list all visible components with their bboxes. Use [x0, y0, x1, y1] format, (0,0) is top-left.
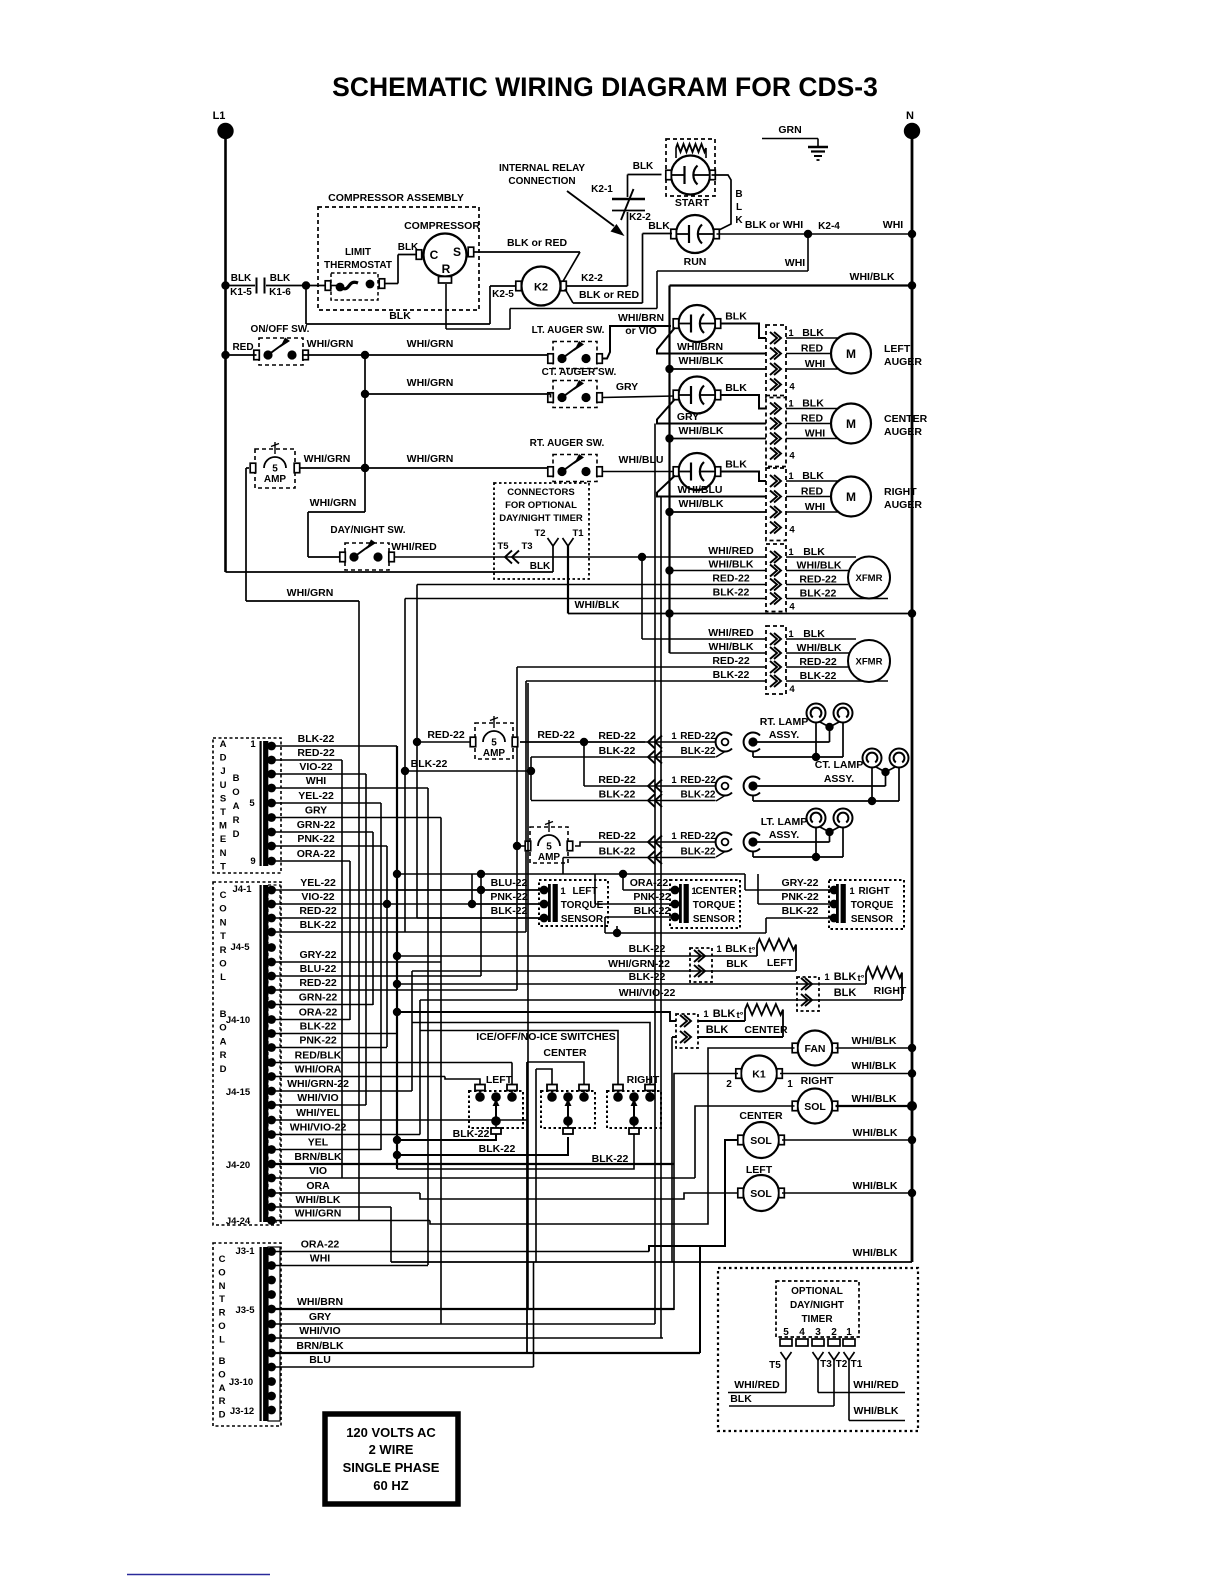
- svg-text:K: K: [735, 215, 743, 226]
- svg-text:LT. AUGER SW.: LT. AUGER SW.: [532, 325, 605, 336]
- svg-text:DAY/NIGHT SW.: DAY/NIGHT SW.: [330, 525, 405, 536]
- svg-text:WHI/BLK: WHI/BLK: [679, 355, 724, 367]
- wire fuse to RT auger sw: [299, 467, 551, 469]
- control board J3 pin 2 WHI: [267, 1261, 276, 1270]
- wire compressor S to K2: [474, 251, 581, 253]
- control board J4 pin 4 BLK-22: [267, 928, 276, 937]
- svg-text:C: C: [219, 1254, 226, 1265]
- svg-text:S: S: [220, 793, 226, 804]
- svg-text:THERMOSTAT: THERMOSTAT: [324, 260, 392, 271]
- svg-text:WHI/BLK: WHI/BLK: [852, 1093, 897, 1105]
- svg-text:4: 4: [799, 1327, 805, 1338]
- svg-text:WHI/RED: WHI/RED: [734, 1379, 780, 1391]
- svg-text:YEL-22: YEL-22: [300, 877, 336, 889]
- svg-text:CT. AUGER SW.: CT. AUGER SW.: [542, 367, 617, 378]
- motor M center auger: [831, 404, 871, 444]
- svg-text:WHI/GRN-22: WHI/GRN-22: [287, 1078, 349, 1090]
- transformer XFMR: [848, 557, 890, 599]
- wire lamp RED-22 row: [584, 785, 716, 787]
- wire RIGHT ice right terminal: [412, 1023, 650, 1085]
- svg-text:BLK: BLK: [725, 943, 747, 955]
- svg-text:PNK-22: PNK-22: [299, 1035, 337, 1047]
- thermistor RIGHT rows: [393, 980, 401, 988]
- control board J4 box: [213, 882, 281, 1225]
- svg-text:BLK-22: BLK-22: [453, 1128, 490, 1140]
- svg-text:R: R: [219, 1396, 226, 1407]
- torque sensor LEFT pin: [540, 900, 549, 909]
- svg-text:GRY-22: GRY-22: [782, 877, 819, 889]
- svg-text:CENTER: CENTER: [739, 1110, 783, 1122]
- wire LEFT ice bottom BLK-22: [397, 1134, 496, 1140]
- svg-text:t°: t°: [749, 945, 756, 956]
- control board J4 pin 19 YEL: [267, 1145, 276, 1154]
- wire CENTER ice bottom BLK-22: [397, 1137, 568, 1155]
- wire J3 row: [272, 1265, 429, 1267]
- wire bus to coil pin3: [670, 368, 767, 370]
- svg-text:K1-6: K1-6: [269, 287, 291, 298]
- svg-text:START: START: [675, 197, 710, 209]
- svg-text:D: D: [220, 1064, 227, 1075]
- svg-text:BLK: BLK: [389, 310, 411, 322]
- svg-text:BLU-22: BLU-22: [300, 963, 337, 975]
- svg-text:WHI/BLK: WHI/BLK: [679, 498, 724, 510]
- svg-text:T5: T5: [497, 541, 509, 552]
- svg-text:A: A: [219, 1383, 226, 1394]
- wire J3 row: [272, 1323, 656, 1325]
- svg-text:N: N: [220, 848, 227, 859]
- wire J4 row: [272, 917, 545, 919]
- wire cap right to coil pin1: [720, 472, 766, 482]
- svg-text:60 HZ: 60 HZ: [373, 1478, 408, 1493]
- control board J4 pin 9 GRN-22: [267, 1000, 276, 1009]
- svg-text:K2-1: K2-1: [591, 184, 613, 195]
- svg-text:PNK-22: PNK-22: [781, 891, 819, 903]
- svg-text:WHI/VIO: WHI/VIO: [299, 1325, 340, 1337]
- svg-text:WHI/BLU: WHI/BLU: [619, 454, 664, 466]
- svg-text:1: 1: [250, 739, 256, 750]
- svg-text:YEL-22: YEL-22: [298, 790, 334, 802]
- wire center therm lower vertical: [672, 1036, 676, 1038]
- torque sensor LEFT pin: [540, 886, 549, 895]
- svg-text:BLK: BLK: [834, 971, 857, 983]
- svg-text:2: 2: [831, 1327, 837, 1338]
- svg-text:RED-22: RED-22: [598, 730, 636, 742]
- svg-text:BLK-22: BLK-22: [782, 905, 819, 917]
- svg-text:FOR OPTIONAL: FOR OPTIONAL: [505, 500, 577, 511]
- wire J3 row: [272, 1308, 675, 1310]
- wire contact to START: [628, 174, 662, 176]
- svg-text:CENTER: CENTER: [695, 886, 737, 897]
- svg-text:RED-22: RED-22: [680, 775, 716, 786]
- control board J3 pin 10: [267, 1377, 276, 1386]
- svg-text:L: L: [219, 1334, 225, 1345]
- svg-text:M: M: [846, 417, 856, 431]
- svg-text:K2: K2: [534, 282, 548, 294]
- svg-text:5: 5: [272, 464, 278, 475]
- svg-text:O: O: [218, 1321, 225, 1332]
- svg-text:RT. AUGER SW.: RT. AUGER SW.: [530, 438, 605, 449]
- wire lamp shell row: [752, 796, 754, 802]
- svg-text:D: D: [219, 1410, 226, 1421]
- wires coil to xfmr: [786, 638, 856, 640]
- control board J3 pin 6 GRY: [267, 1320, 276, 1329]
- svg-text:WHI/BLK: WHI/BLK: [709, 641, 754, 653]
- wire J4 row: [272, 1019, 351, 1021]
- svg-text:1: 1: [671, 731, 677, 742]
- wire lamp BLK-22 row: [531, 800, 716, 802]
- wire cap left diag to coil pin2: [657, 476, 766, 497]
- svg-text:K2-5: K2-5: [492, 289, 514, 300]
- svg-text:WHI/RED: WHI/RED: [853, 1379, 899, 1391]
- svg-text:BLK: BLK: [725, 459, 747, 471]
- svg-text:RED-22: RED-22: [537, 729, 575, 741]
- wire CENTER ice right terminal: [527, 1062, 584, 1085]
- wire coil to motor: [786, 408, 843, 410]
- svg-text:FAN: FAN: [805, 1043, 826, 1055]
- adjustment board pin 1 BLK-22: [267, 742, 276, 751]
- fan motor FAN: [798, 1031, 833, 1066]
- svg-text:4: 4: [789, 451, 795, 462]
- wire bulbs common: [881, 768, 889, 776]
- svg-text:T: T: [220, 931, 226, 942]
- wire WHI/RED to xfmr1: [394, 556, 641, 558]
- ice switch LEFT: [469, 1091, 523, 1128]
- adjustment board pin 7 GRN-22: [267, 828, 276, 837]
- svg-text:J3-12: J3-12: [230, 1406, 254, 1417]
- svg-text:DAY/NIGHT: DAY/NIGHT: [790, 1300, 844, 1311]
- fork T5: [781, 1352, 787, 1360]
- wire cap right to coil pin1: [720, 395, 766, 409]
- svg-text:T3: T3: [521, 541, 532, 552]
- torque sensor CENTER pin: [671, 900, 680, 909]
- svg-text:RIGHT: RIGHT: [884, 486, 917, 498]
- wire adjustment row: [272, 845, 388, 847]
- wire YEL-22 vertical: [380, 803, 382, 1150]
- svg-text:J4-10: J4-10: [226, 1015, 250, 1026]
- wire lamp shell row: [752, 852, 754, 858]
- svg-text:BLK: BLK: [270, 273, 291, 284]
- wire RT sw to cap WHI/BLU: [602, 471, 675, 473]
- control board J3 pin 3: [267, 1276, 276, 1285]
- svg-text:VIO: VIO: [309, 1165, 327, 1177]
- wire WHI/BLK N return bottom: [391, 1261, 912, 1263]
- svg-text:WHI/BLK: WHI/BLK: [853, 1180, 898, 1192]
- wire bulbs common: [825, 723, 833, 731]
- svg-text:O: O: [219, 959, 226, 970]
- svg-text:WHI/RED: WHI/RED: [708, 545, 754, 557]
- svg-text:ORA-22: ORA-22: [299, 1007, 338, 1019]
- adjustment board pin 9 ORA-22: [267, 857, 276, 866]
- svg-text:ON/OFF SW.: ON/OFF SW.: [251, 324, 310, 335]
- svg-text:WHI/ORA: WHI/ORA: [295, 1064, 342, 1076]
- svg-text:BLK-22: BLK-22: [300, 919, 337, 931]
- svg-text:BLK: BLK: [231, 273, 252, 284]
- wire cap right to coil pin1: [720, 324, 766, 339]
- wire bus to coil pin3: [670, 511, 767, 513]
- svg-text:J3-10: J3-10: [229, 1377, 253, 1388]
- svg-text:J4-20: J4-20: [226, 1160, 250, 1171]
- svg-text:M: M: [219, 821, 227, 832]
- control board J4 connector bar: [260, 885, 262, 1222]
- svg-text:PNK-22: PNK-22: [297, 833, 335, 845]
- wire WHI/BRN stub vertical: [527, 683, 529, 1309]
- wire J4 row: [272, 1206, 392, 1208]
- control board J4 pin 3 RED-22: [267, 914, 276, 923]
- svg-text:BLU-22: BLU-22: [491, 877, 528, 889]
- wire CT junction to sw: [365, 393, 551, 395]
- svg-text:TORQUE: TORQUE: [693, 900, 736, 911]
- svg-text:WHI/BLK: WHI/BLK: [852, 1035, 897, 1047]
- svg-text:BLK: BLK: [834, 987, 857, 999]
- coil connector XFMR: [766, 544, 786, 612]
- svg-text:RIGHT: RIGHT: [874, 985, 907, 997]
- svg-text:J3-5: J3-5: [235, 1305, 255, 1316]
- svg-text:A: A: [233, 801, 240, 812]
- wire xfmr2 row4 vertical: [525, 681, 527, 932]
- run capacitor: [676, 215, 714, 253]
- wire BLU J3-9 vertical: [533, 1262, 535, 1367]
- optional day/night timer inner box: [776, 1281, 859, 1337]
- svg-text:ICE/OFF/NO-ICE SWITCHES: ICE/OFF/NO-ICE SWITCHES: [476, 1031, 615, 1043]
- svg-text:A: A: [220, 1036, 227, 1047]
- wire FAN left: [430, 1048, 795, 1224]
- svg-text:BLK-22: BLK-22: [680, 746, 715, 757]
- svg-text:TORQUE: TORQUE: [561, 900, 604, 911]
- fork T3: [813, 1352, 819, 1360]
- svg-text:1: 1: [560, 886, 566, 897]
- wire RED-22 vertical to fuse: [416, 585, 418, 919]
- wire J4 row: [272, 903, 545, 905]
- svg-text:CONNECTION: CONNECTION: [508, 176, 575, 187]
- svg-text:WHI/BRN: WHI/BRN: [618, 312, 664, 324]
- svg-text:SENSOR: SENSOR: [561, 914, 604, 925]
- svg-text:WHI/GRN: WHI/GRN: [407, 338, 454, 350]
- svg-text:120 VOLTS AC: 120 VOLTS AC: [346, 1425, 436, 1440]
- lamp connector female: [716, 733, 732, 752]
- svg-text:C: C: [220, 890, 227, 901]
- svg-text:5: 5: [491, 738, 497, 749]
- svg-text:S: S: [453, 245, 461, 259]
- relay K2: [522, 267, 561, 306]
- fork T2: [548, 538, 554, 546]
- svg-text:LEFT: LEFT: [767, 957, 794, 969]
- wire T2 BLK: [833, 1360, 835, 1406]
- control board J4 pin 1 YEL-22: [267, 886, 276, 895]
- coil connector right auger: [766, 468, 786, 541]
- svg-text:WHI/GRN: WHI/GRN: [304, 453, 351, 465]
- coil connector XFMR: [766, 626, 786, 694]
- svg-text:J4-1: J4-1: [232, 884, 252, 895]
- svg-text:t°: t°: [737, 1010, 744, 1021]
- wire L1 rail: [224, 139, 227, 572]
- adjustment board pin 5 YEL-22: [267, 799, 276, 808]
- wire LEFT ice right terminal RED/BLK: [511, 1063, 513, 1085]
- svg-text:B: B: [233, 773, 240, 784]
- control board J4 pin 23 WHI/BLK: [267, 1203, 276, 1212]
- svg-text:WHI/BLK: WHI/BLK: [679, 425, 724, 437]
- svg-text:J4-24: J4-24: [226, 1216, 251, 1227]
- fuse 5 AMP left: [255, 449, 295, 488]
- svg-text:RED-22: RED-22: [680, 831, 716, 842]
- lamp bulb 2: [834, 704, 853, 723]
- adjustment board pin 6 GRY: [267, 813, 276, 822]
- wire WHI/BLU long vertical to J3-7: [660, 497, 662, 1339]
- svg-text:COMPRESSOR: COMPRESSOR: [404, 220, 480, 232]
- svg-text:RED-22: RED-22: [299, 905, 337, 917]
- wire ON/OFF to LT auger sw WHI/GRN: [304, 354, 551, 356]
- wire PNK-22 into RIGHT sensor: [758, 903, 830, 905]
- control board J3 pin 5 WHI/BRN: [267, 1305, 276, 1314]
- svg-text:RED-22: RED-22: [680, 731, 716, 742]
- wire J4 row: [272, 889, 545, 891]
- svg-text:T: T: [220, 807, 226, 818]
- svg-text:SOL: SOL: [750, 1135, 772, 1147]
- wire adjustment row: [272, 802, 382, 804]
- node junction thermostat feed: [302, 281, 310, 289]
- control board J4 pin 22 ORA: [267, 1189, 276, 1198]
- svg-text:XFMR: XFMR: [856, 573, 883, 584]
- svg-text:BLK-22: BLK-22: [713, 587, 750, 599]
- svg-text:U: U: [220, 780, 227, 791]
- wire RIGHT ice bottom BLK-22: [397, 1134, 634, 1169]
- svg-text:BLK or RED: BLK or RED: [507, 237, 568, 249]
- torque sensor RIGHT box: [829, 880, 904, 929]
- control board J4 pin 10 ORA-22: [267, 1015, 276, 1024]
- svg-text:9: 9: [250, 856, 255, 867]
- svg-text:PNK-22: PNK-22: [633, 891, 671, 903]
- svg-text:GRY: GRY: [305, 805, 327, 817]
- wire WHI/GRN-22 vertical: [411, 971, 413, 1091]
- control board J3 connector bar: [260, 1247, 262, 1421]
- svg-text:4: 4: [789, 684, 795, 695]
- svg-text:RED-22: RED-22: [598, 830, 636, 842]
- svg-text:BLK-22: BLK-22: [599, 846, 636, 858]
- svg-text:BLK: BLK: [713, 1008, 736, 1020]
- svg-text:WHI/BLK: WHI/BLK: [854, 1405, 899, 1417]
- svg-text:BRN/BLK: BRN/BLK: [294, 1151, 342, 1163]
- svg-text:WHI/BLK: WHI/BLK: [850, 271, 895, 283]
- wire J4 row: [272, 1163, 675, 1165]
- svg-text:WHI/BLK: WHI/BLK: [709, 559, 754, 571]
- wire J3 row: [272, 1251, 650, 1253]
- svg-text:O: O: [218, 1369, 225, 1380]
- wire J4 row: [272, 1004, 374, 1006]
- wire J4 row: [272, 1134, 421, 1136]
- wire WHI compressor R to K2-4: [445, 284, 447, 329]
- wire J3 row: [272, 1337, 664, 1339]
- control board J3 pin 11: [267, 1392, 276, 1401]
- svg-text:LT. LAMP: LT. LAMP: [761, 816, 807, 828]
- svg-text:WHI/VIO: WHI/VIO: [297, 1092, 338, 1104]
- control board J4 pin 11 BLK-22: [267, 1029, 276, 1038]
- control board J4 pin 18 WHI/VIO-22: [267, 1130, 276, 1139]
- svg-text:1: 1: [846, 1327, 852, 1338]
- wire BLU-22 vertical: [480, 874, 482, 976]
- torque sensor CENTER pin: [671, 886, 680, 895]
- svg-text:1: 1: [716, 944, 722, 955]
- wire cap left diag to coil pin2: [657, 328, 766, 354]
- svg-text:J3-1: J3-1: [235, 1246, 255, 1257]
- wire J4 row: [272, 1090, 413, 1092]
- wire PNK-22 vertical: [386, 846, 388, 1047]
- transformer 2 rows: [641, 557, 643, 639]
- svg-text:BLK-22: BLK-22: [298, 733, 335, 745]
- torque sensor CENTER pin: [671, 913, 680, 922]
- wire BLK-22 into RIGHT sensor: [766, 917, 830, 919]
- coil connector CENTER thermistor: [676, 1014, 698, 1048]
- wire adjustment row: [272, 831, 374, 833]
- svg-text:CENTER: CENTER: [744, 1024, 788, 1036]
- wires coil to xfmr: [786, 556, 856, 558]
- thermistor LEFT rows: [393, 952, 401, 960]
- svg-text:CONNECTORS: CONNECTORS: [507, 487, 574, 498]
- wire WHI vertical: [427, 788, 429, 1265]
- wire RUN left BLK: [643, 233, 673, 235]
- svg-text:K1: K1: [752, 1069, 766, 1081]
- wire lamp shell row: [752, 752, 754, 758]
- svg-text:1: 1: [671, 831, 677, 842]
- wire GRY-22 into RIGHT sensor: [744, 874, 746, 890]
- wire RED-22 adj vertical 2: [341, 760, 343, 1178]
- capacitor auger center: [679, 377, 716, 414]
- torque sensor RIGHT pin: [830, 914, 839, 923]
- relay K1: [741, 1056, 777, 1092]
- svg-text:RED/BLK: RED/BLK: [295, 1050, 342, 1062]
- wire J4 row: [272, 1177, 696, 1179]
- wire CENTER SOL to N WHI/BLK: [782, 1139, 912, 1141]
- svg-text:YEL: YEL: [308, 1137, 329, 1149]
- lamp connector male: [744, 777, 760, 796]
- svg-text:RED-22: RED-22: [712, 573, 750, 585]
- control board J4 pin 24 WHI/GRN: [267, 1216, 276, 1225]
- wire K2 to contact: [566, 285, 628, 287]
- control board J4 pin 2 VIO-22: [267, 900, 276, 909]
- svg-text:BLK-22: BLK-22: [300, 1021, 337, 1033]
- svg-text:D: D: [220, 753, 227, 764]
- svg-text:2: 2: [726, 1079, 732, 1090]
- wire T5 WHI/RED: [785, 1360, 787, 1393]
- svg-text:AUGER: AUGER: [884, 426, 922, 438]
- svg-text:VIO-22: VIO-22: [299, 761, 332, 773]
- svg-text:K2-2: K2-2: [581, 273, 603, 284]
- svg-text:3: 3: [815, 1327, 821, 1338]
- wire K1-2 left: [674, 1074, 738, 1165]
- wire J4 row: [272, 961, 442, 963]
- wire J4 row: [272, 1220, 431, 1222]
- thermistor CENTER rows: [393, 1008, 401, 1016]
- wire adjustment row: [272, 860, 351, 862]
- svg-text:BLU: BLU: [309, 1354, 331, 1366]
- lamp bulb 2: [890, 749, 909, 768]
- wire RIGHT SOL left: [695, 1106, 795, 1178]
- wire START to RUN BLK: [712, 175, 732, 231]
- wire bus to coil pin3: [670, 438, 767, 440]
- svg-text:RED-22: RED-22: [297, 747, 335, 759]
- svg-text:GRY: GRY: [616, 381, 638, 393]
- control board J3 pin 8 BRN/BLK: [267, 1349, 276, 1358]
- wire T1 WHI/BLK: [848, 1360, 850, 1421]
- svg-text:M: M: [846, 347, 856, 361]
- svg-text:LIMIT: LIMIT: [345, 247, 371, 258]
- coil connector left auger: [766, 325, 786, 398]
- svg-text:RED-22: RED-22: [427, 729, 465, 741]
- svg-text:SENSOR: SENSOR: [851, 914, 894, 925]
- svg-text:VIO-22: VIO-22: [301, 891, 334, 903]
- svg-text:WHI/GRN: WHI/GRN: [307, 338, 354, 350]
- svg-text:GRY: GRY: [309, 1311, 331, 1323]
- lamp bulb 1: [807, 809, 826, 828]
- svg-text:1: 1: [824, 972, 830, 983]
